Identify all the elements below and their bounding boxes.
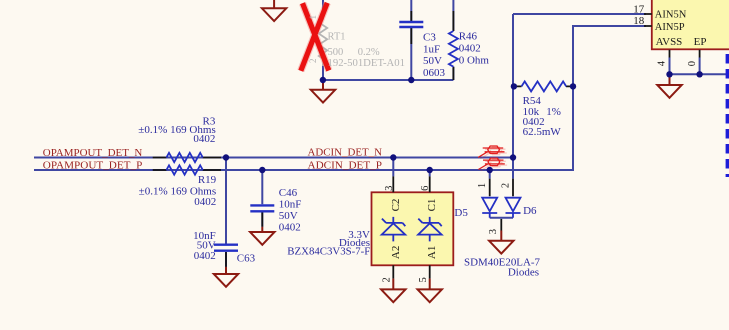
svg-text:D6: D6 [523, 205, 537, 217]
svg-text:0.2%: 0.2% [358, 47, 380, 58]
svg-text:C46: C46 [279, 187, 298, 199]
svg-text:1uF: 1uF [423, 43, 440, 55]
svg-text:R46: R46 [459, 31, 478, 43]
svg-text:62.5mW: 62.5mW [523, 126, 562, 138]
svg-text:2: 2 [382, 277, 393, 282]
svg-text:C3: C3 [423, 31, 436, 43]
svg-text:192-501DET-A01: 192-501DET-A01 [328, 58, 406, 69]
svg-text:C63: C63 [237, 253, 256, 265]
svg-text:AVSS: AVSS [656, 36, 683, 48]
svg-text:OPAMPOUT_DET_P: OPAMPOUT_DET_P [43, 160, 142, 172]
svg-text:A2: A2 [390, 246, 402, 259]
svg-text:3: 3 [384, 186, 395, 191]
svg-text:1: 1 [477, 183, 488, 188]
svg-text:Diodes: Diodes [508, 267, 539, 279]
svg-text:0: 0 [687, 61, 698, 66]
svg-text:0 Ohm: 0 Ohm [459, 54, 490, 66]
svg-text:500: 500 [328, 47, 344, 58]
svg-text:0402: 0402 [194, 250, 216, 262]
svg-text:3: 3 [488, 229, 499, 234]
svg-text:4: 4 [657, 60, 668, 66]
svg-text:1%: 1% [546, 106, 561, 118]
svg-text:C2: C2 [390, 199, 402, 212]
svg-text:BZX84C3V3S-7-F: BZX84C3V3S-7-F [287, 246, 370, 258]
svg-text:0402: 0402 [459, 43, 481, 55]
svg-text:0402: 0402 [193, 133, 215, 145]
svg-text:0402: 0402 [194, 196, 216, 208]
svg-text:AIN5N: AIN5N [655, 10, 687, 21]
svg-text:6: 6 [420, 186, 431, 191]
svg-text:5: 5 [418, 277, 429, 282]
svg-text:D5: D5 [454, 207, 468, 219]
svg-text:ADCIN_DET_P: ADCIN_DET_P [308, 160, 383, 172]
svg-text:C1: C1 [426, 199, 438, 212]
svg-text:17: 17 [633, 3, 645, 15]
svg-text:A1: A1 [426, 246, 438, 259]
svg-text:10nF: 10nF [279, 198, 302, 210]
svg-text:2: 2 [501, 183, 512, 188]
svg-text:0603: 0603 [423, 67, 446, 79]
svg-text:50V: 50V [423, 55, 442, 67]
svg-text:18: 18 [633, 15, 645, 27]
svg-text:1: 1 [308, 15, 318, 20]
svg-text:AIN5P: AIN5P [655, 22, 685, 33]
svg-text:EP: EP [694, 36, 707, 48]
svg-text:RT1: RT1 [328, 32, 346, 43]
svg-text:2: 2 [308, 59, 318, 64]
svg-text:OPAMPOUT_DET_N: OPAMPOUT_DET_N [43, 147, 143, 159]
svg-text:R19: R19 [198, 174, 217, 186]
svg-text:ADCIN_DET_N: ADCIN_DET_N [308, 147, 383, 159]
svg-text:50V: 50V [279, 210, 298, 222]
svg-text:0402: 0402 [279, 221, 301, 233]
